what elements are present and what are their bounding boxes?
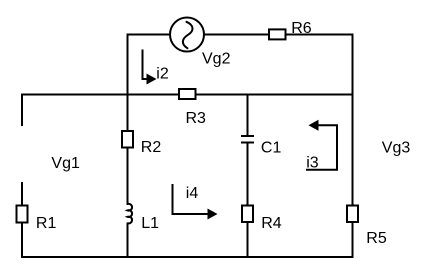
current arrow i3 xyxy=(306,120,337,170)
resistor R1 xyxy=(17,206,28,223)
wire C1 branch between capacitor and R4 xyxy=(247,144,249,205)
svg-text:R1: R1 xyxy=(36,215,57,232)
svg-text:C1: C1 xyxy=(261,140,282,157)
svg-text:R2: R2 xyxy=(141,139,162,156)
svg-text:Vg1: Vg1 xyxy=(51,155,80,172)
wire top-right horizontal after R6 xyxy=(286,34,353,36)
AC source Vg2 xyxy=(170,18,204,52)
inductor L1 xyxy=(128,204,133,224)
wire central below L1 xyxy=(127,224,129,258)
capacitor C1 xyxy=(241,136,254,143)
wire central between R2 and L1 xyxy=(127,148,129,205)
wire right vertical upper xyxy=(352,35,354,205)
svg-text:R3: R3 xyxy=(186,110,207,127)
wire middle horizontal right of R3 xyxy=(196,94,353,96)
wire top between source and R6 xyxy=(205,34,270,36)
wire C1 branch above capacitor xyxy=(247,95,249,136)
svg-text:Vg3: Vg3 xyxy=(382,139,411,156)
wire right vertical lower xyxy=(352,223,354,257)
svg-text:i3: i3 xyxy=(306,154,319,171)
wire central vertical above R2 xyxy=(127,35,129,131)
svg-text:i2: i2 xyxy=(156,65,169,82)
wire middle horizontal left of R3 xyxy=(22,94,179,96)
current arrow i4 xyxy=(173,184,218,220)
resistor R4 xyxy=(242,206,253,223)
svg-text:R4: R4 xyxy=(261,215,282,232)
svg-text:R5: R5 xyxy=(366,230,387,247)
wire below R4 xyxy=(247,223,249,258)
current arrow i2 xyxy=(143,50,157,85)
svg-text:Vg2: Vg2 xyxy=(202,50,231,67)
svg-text:L1: L1 xyxy=(141,215,159,232)
resistor R2 xyxy=(122,131,133,148)
resistor R6 xyxy=(269,29,286,39)
wire left below R1 xyxy=(21,224,23,258)
resistor R5 xyxy=(347,206,358,223)
wire left stub below node xyxy=(21,95,23,126)
svg-text:i4: i4 xyxy=(186,185,199,202)
resistor R3 xyxy=(179,89,196,99)
wire bottom horizontal xyxy=(22,256,353,258)
wire left above R1 xyxy=(21,183,23,205)
svg-text:R6: R6 xyxy=(291,20,312,37)
wire top-left horizontal xyxy=(128,34,170,36)
